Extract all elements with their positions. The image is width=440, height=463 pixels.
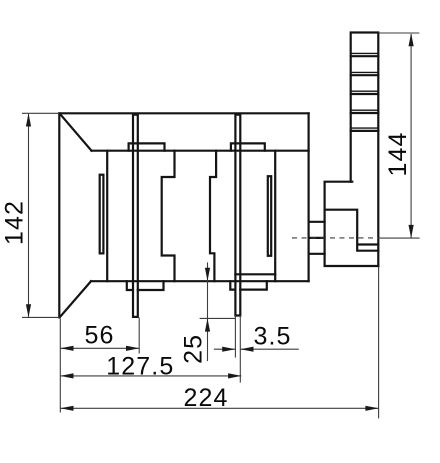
handle ridge 1 [351, 52, 379, 54]
arrow 3.5 right (points left) [240, 347, 253, 352]
body top edge [59, 112, 308, 114]
screw 1 strip [133, 115, 138, 317]
screw 2 top tab [231, 143, 265, 150]
arrow 25 down (tip at body bottom) [205, 268, 210, 281]
svg-text:224: 224 [183, 384, 228, 412]
screw2 left extension [234, 316, 236, 358]
svg-text:25: 25 [180, 334, 208, 364]
flange bottom slope [60, 281, 91, 316]
middle pole profile [210, 151, 216, 282]
svg-text:127.5: 127.5 [106, 353, 174, 381]
screw 1 bottom tab [127, 281, 164, 290]
body bottom edge [91, 280, 309, 282]
handle bracket [325, 182, 379, 266]
svg-text:3.5: 3.5 [253, 323, 291, 351]
arrow 127.5 left [60, 373, 73, 378]
arrow 56 left [60, 346, 73, 351]
dim 224 line [60, 407, 378, 409]
handle ridge 3 [351, 90, 379, 92]
handle ridge 4 [351, 109, 379, 111]
arrow 56 right [126, 346, 139, 351]
dim 127.5 line [60, 375, 241, 377]
dim 144 extension top [378, 32, 419, 34]
dim 144 line [410, 34, 412, 238]
arrow 224 right [365, 406, 378, 411]
arrow 142 up [26, 113, 31, 126]
centerline dashed [292, 237, 380, 239]
handle ridge 5 [351, 127, 379, 129]
dim 142 extension bottom [22, 316, 59, 318]
svg-text:142: 142 [1, 200, 29, 245]
body right edge [308, 113, 310, 281]
inner ledge [235, 273, 275, 275]
arrow 127.5 right [228, 373, 241, 378]
screw2 right extension [239, 316, 241, 383]
screw 1 top tab [129, 143, 165, 150]
handle ridge 2 [351, 71, 379, 73]
dim 25 line [207, 262, 209, 361]
flange top slope [60, 114, 91, 150]
arrow 25 up (tip at ext line) [205, 318, 210, 331]
dim 142 extension top [22, 112, 59, 114]
shelf line [92, 150, 309, 152]
screw 2 strip [235, 115, 240, 316]
dim 25 extension [200, 317, 236, 319]
dim 142 line [28, 114, 30, 317]
svg-text:144: 144 [384, 131, 412, 176]
left extension line [59, 319, 61, 413]
dim 3.5 tails [214, 348, 299, 350]
arrow 142 down [26, 304, 31, 317]
screw1 extension line [138, 318, 140, 354]
arrow 144 down [409, 225, 414, 238]
screw 2 bottom tab [230, 281, 266, 289]
centerline solid right [380, 237, 420, 239]
svg-text:56: 56 [84, 322, 114, 350]
left slot [100, 175, 104, 254]
left pole profile [162, 151, 175, 282]
arrow 224 left [60, 406, 73, 411]
right slot [268, 176, 271, 256]
body left inner edge [106, 151, 108, 282]
handle right extension [378, 267, 380, 419]
shaft stub rungs [309, 222, 325, 254]
arrow 144 up [409, 33, 414, 46]
left flange vertical edge [58, 113, 60, 317]
dim 56 line [60, 347, 139, 349]
bracket inner plate [325, 210, 379, 251]
handle bar [351, 33, 379, 267]
arrow 3.5 left (points right) [222, 347, 235, 352]
partition [274, 151, 276, 282]
